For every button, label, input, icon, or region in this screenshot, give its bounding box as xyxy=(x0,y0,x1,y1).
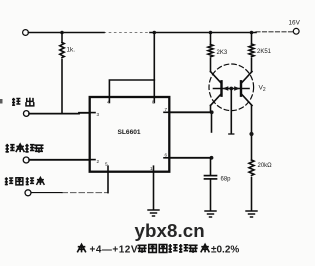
op-amp/IC U1 box xyxy=(90,97,170,172)
label: 触发信号 (trigger signal) xyxy=(6,144,44,153)
svg-text:2K3: 2K3 xyxy=(217,50,228,56)
pin tick 1 (bottom right) xyxy=(153,166,155,172)
caption: 在+4—+12V范围内线性度为±0.2% xyxy=(77,244,239,255)
node: rail junction at R2 xyxy=(209,31,213,35)
svg-text:3: 3 xyxy=(97,112,100,117)
node: junction pin7 wire xyxy=(210,110,214,114)
svg-text:1k.: 1k. xyxy=(67,47,76,54)
wire: output lead into IC pin 3 xyxy=(29,112,90,115)
pin tick 4 (top left) xyxy=(108,97,110,103)
node: rail junction at R3 xyxy=(250,31,254,35)
wire: IC bottom right pin to ground xyxy=(153,172,155,210)
ground (capacitor) xyxy=(205,211,216,217)
node: junction pin6 wire xyxy=(210,156,214,160)
svg-text:20kΩ: 20kΩ xyxy=(258,163,273,169)
pin tick 6 (right bottom) xyxy=(164,157,170,159)
wire: rail to IC top pins (step) xyxy=(153,33,155,98)
label: 调制输入 (modulation input) xyxy=(5,177,45,185)
pin tick 7 (right top) xyxy=(164,111,170,113)
wire: base stub down xyxy=(230,89,232,134)
terminal: output xyxy=(23,111,29,117)
wire: IC pin6 to capacitor xyxy=(170,157,212,159)
transistor Q-right base bar xyxy=(240,81,242,95)
resistor R2 2K xyxy=(210,33,212,45)
capacitor C1 68p xyxy=(210,158,212,175)
transistor Q-left base bar xyxy=(220,81,222,95)
transistor Q-right collector lead xyxy=(241,72,252,84)
wire: joined bases horizontal xyxy=(214,88,250,90)
svg-text:±0.2%: ±0.2% xyxy=(211,244,239,255)
transistor arrows xyxy=(223,86,229,91)
transistor pair V1 envelope xyxy=(209,64,254,111)
ground (IC pin) xyxy=(148,210,159,216)
ground (R4) xyxy=(246,211,257,217)
resistor R1 1k xyxy=(61,33,63,43)
svg-text:6: 6 xyxy=(165,153,168,158)
node: base junction xyxy=(229,87,233,91)
svg-text:4: 4 xyxy=(107,100,110,105)
transistor Q-left emitter lead xyxy=(211,94,222,106)
node: rail junction at R1 xyxy=(60,31,64,35)
svg-text:1: 1 xyxy=(150,166,153,171)
wire: top supply rail xyxy=(28,32,104,34)
terminal: trigger input xyxy=(23,157,29,163)
terminal: top-left input xyxy=(23,30,29,36)
svg-text:2: 2 xyxy=(97,159,100,164)
node: rail junction feeding IC xyxy=(153,31,157,35)
wire: modulation input lead to IC bottom pin xyxy=(31,192,62,194)
resistor R4 20k xyxy=(249,160,254,175)
wire: left collector chain down xyxy=(210,106,212,113)
transistor Q-left collector lead xyxy=(211,72,222,84)
svg-text:5: 5 xyxy=(105,162,108,167)
svg-text:+4—+12V: +4—+12V xyxy=(90,244,139,255)
pin tick 5 (bottom left) xyxy=(107,166,109,172)
wire: right collector chain down to R4 xyxy=(251,106,253,161)
svg-text:16V: 16V xyxy=(289,20,301,27)
wire: IC pin7 to transistor xyxy=(170,111,213,113)
pin tick 8 (top right) xyxy=(153,97,155,103)
pin tick 3 (left top) xyxy=(90,112,95,114)
terminal: +16V supply xyxy=(293,28,299,34)
svg-text:2K51: 2K51 xyxy=(257,49,272,55)
svg-text:8: 8 xyxy=(152,100,155,105)
svg-text:ybx8.cn: ybx8.cn xyxy=(135,220,205,241)
terminal: modulation input xyxy=(25,190,31,196)
svg-text:68p: 68p xyxy=(221,177,232,183)
label: 输出 (output) xyxy=(12,98,34,106)
node: junction above R4 xyxy=(249,132,253,136)
svg-text:7: 7 xyxy=(165,107,168,112)
svg-text:SL6601: SL6601 xyxy=(118,129,141,136)
pin tick 2 (left bottom) xyxy=(90,159,95,161)
resistor R3 2K51 xyxy=(251,33,253,45)
wire: trigger signal lead into IC pin 2 xyxy=(29,159,89,161)
transistor Q-right emitter lead xyxy=(241,94,252,106)
